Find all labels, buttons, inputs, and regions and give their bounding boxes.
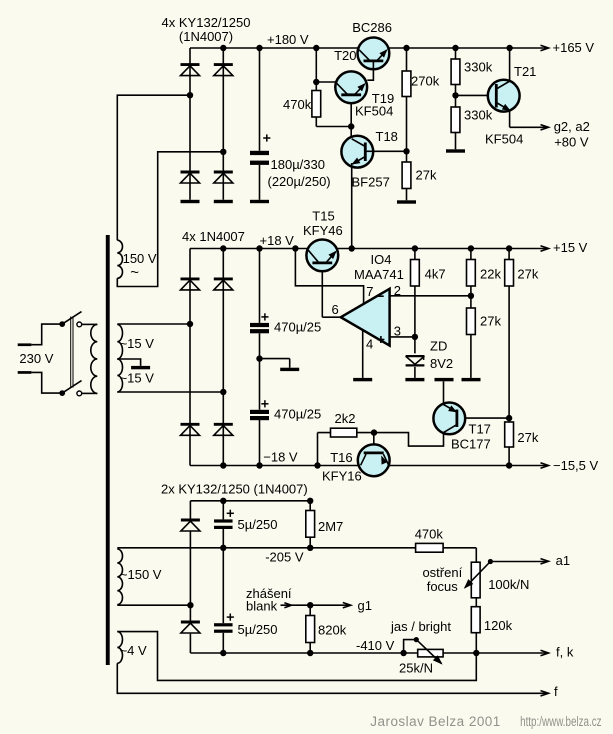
svg-text:7: 7 xyxy=(366,284,373,299)
svg-text:T18: T18 xyxy=(376,129,398,144)
svg-text:g1: g1 xyxy=(358,598,372,613)
svg-text:(220µ/250): (220µ/250) xyxy=(268,174,331,189)
svg-text:~15 V: ~15 V xyxy=(120,371,155,386)
svg-text:KFY16: KFY16 xyxy=(322,469,362,484)
svg-text:27k: 27k xyxy=(416,168,437,183)
svg-text:150 V: 150 V xyxy=(123,251,157,266)
svg-text:BC177: BC177 xyxy=(451,437,491,452)
svg-text:T21: T21 xyxy=(514,64,536,79)
svg-text:a1: a1 xyxy=(556,553,570,568)
svg-text:4: 4 xyxy=(366,337,373,352)
svg-text:KF504: KF504 xyxy=(355,104,393,119)
svg-text:27k: 27k xyxy=(517,430,538,445)
svg-text:27k: 27k xyxy=(517,267,538,282)
svg-text:470µ/25: 470µ/25 xyxy=(274,407,321,422)
svg-text:+18 V: +18 V xyxy=(260,233,295,248)
svg-text:http:/www.belza.cz: http:/www.belza.cz xyxy=(520,714,602,729)
svg-text:+165 V: +165 V xyxy=(553,40,595,55)
svg-text:180µ/330: 180µ/330 xyxy=(271,157,325,172)
svg-text:27k: 27k xyxy=(480,314,501,329)
svg-text:−15,5 V: −15,5 V xyxy=(553,458,599,473)
svg-text:2k2: 2k2 xyxy=(335,411,356,426)
svg-text:IO4: IO4 xyxy=(371,252,392,267)
svg-text:8V2: 8V2 xyxy=(430,356,453,371)
svg-text:-410 V: -410 V xyxy=(356,638,395,653)
svg-text:+180 V: +180 V xyxy=(267,32,309,47)
svg-text:MAA741: MAA741 xyxy=(354,267,404,282)
svg-text:820k: 820k xyxy=(318,623,347,638)
svg-text:focus: focus xyxy=(427,579,459,594)
svg-text:5µ/250: 5µ/250 xyxy=(238,622,278,637)
svg-text:4x 1N4007: 4x 1N4007 xyxy=(182,229,245,244)
svg-text:5µ/250: 5µ/250 xyxy=(238,517,278,532)
svg-text:4x KY132/1250: 4x KY132/1250 xyxy=(162,15,251,30)
svg-text:25k/N: 25k/N xyxy=(399,661,433,676)
svg-text:+80 V: +80 V xyxy=(554,135,589,150)
svg-text:T17: T17 xyxy=(469,422,491,437)
svg-text:−18 V: −18 V xyxy=(263,450,298,465)
svg-text:3: 3 xyxy=(394,324,401,339)
svg-text:~150 V: ~150 V xyxy=(120,567,162,582)
svg-text:g2, a2: g2, a2 xyxy=(554,119,590,134)
svg-text:2x KY132/1250 (1N4007): 2x KY132/1250 (1N4007) xyxy=(161,482,308,497)
svg-text:6: 6 xyxy=(332,302,339,317)
svg-text:f, k: f, k xyxy=(556,645,574,660)
svg-text:~: ~ xyxy=(130,264,139,281)
svg-text:blank: blank xyxy=(246,599,278,614)
svg-text:~4 V: ~4 V xyxy=(120,643,147,658)
svg-text:330k: 330k xyxy=(464,60,493,75)
svg-text:KFY46: KFY46 xyxy=(303,223,343,238)
svg-text:2: 2 xyxy=(394,283,401,298)
svg-text:ZD: ZD xyxy=(430,339,447,354)
svg-text:jas / bright: jas / bright xyxy=(390,619,451,634)
svg-text:120k: 120k xyxy=(484,618,513,633)
svg-text:T20: T20 xyxy=(334,48,356,63)
svg-text:f: f xyxy=(554,684,558,699)
svg-text:2M7: 2M7 xyxy=(318,519,343,534)
svg-text:330k: 330k xyxy=(464,108,493,123)
svg-text:BF257: BF257 xyxy=(352,175,390,190)
svg-text:T16: T16 xyxy=(330,450,352,465)
svg-text:4k7: 4k7 xyxy=(425,267,446,282)
svg-text:T15: T15 xyxy=(312,209,334,224)
svg-text:KF504: KF504 xyxy=(485,132,523,147)
svg-text:~15 V: ~15 V xyxy=(120,336,155,351)
svg-text:Jaroslav Belza 2001: Jaroslav Belza 2001 xyxy=(370,714,500,729)
svg-text:+15 V: +15 V xyxy=(553,240,588,255)
svg-text:470k: 470k xyxy=(283,97,312,112)
svg-text:270k: 270k xyxy=(411,74,440,89)
svg-text:470k: 470k xyxy=(415,527,444,542)
svg-text:BC286: BC286 xyxy=(352,20,392,35)
svg-text:(1N4007): (1N4007) xyxy=(179,29,233,44)
svg-text:-205 V: -205 V xyxy=(265,550,304,565)
svg-text:22k: 22k xyxy=(480,267,501,282)
svg-text:470µ/25: 470µ/25 xyxy=(274,320,321,335)
svg-text:100k/N: 100k/N xyxy=(488,577,529,592)
svg-text:230 V: 230 V xyxy=(19,351,53,366)
svg-text:ostření: ostření xyxy=(422,565,462,580)
